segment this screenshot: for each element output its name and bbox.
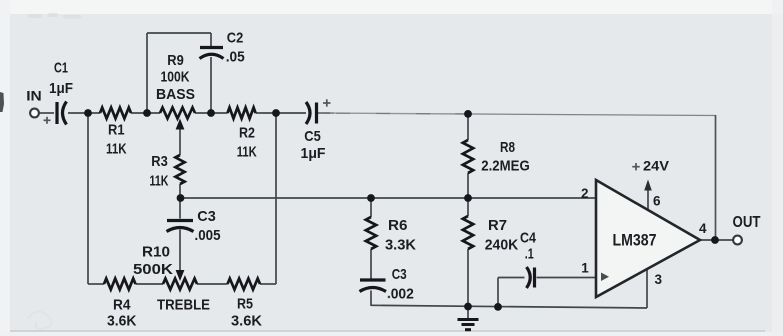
svg-text:LM387: LM387 [613, 232, 657, 250]
svg-text:C4: C4 [520, 229, 537, 246]
svg-text:2: 2 [581, 186, 589, 201]
svg-text:C1: C1 [54, 60, 68, 77]
svg-text:R6: R6 [388, 217, 408, 234]
svg-text:1μF: 1μF [301, 145, 326, 162]
svg-text:R2: R2 [239, 125, 255, 142]
svg-text:24V: 24V [643, 158, 670, 174]
svg-text:C3: C3 [197, 208, 216, 225]
svg-text:100K: 100K [161, 69, 190, 86]
svg-text:11K: 11K [150, 173, 169, 190]
svg-text:240K: 240K [485, 237, 519, 254]
svg-text:R4: R4 [113, 297, 131, 314]
svg-text:BASS: BASS [156, 86, 195, 103]
svg-text:002: 002 [391, 286, 414, 303]
svg-text:500K: 500K [133, 261, 173, 278]
svg-text:C5: C5 [304, 128, 321, 145]
svg-text:3: 3 [655, 272, 663, 287]
svg-text:6: 6 [653, 194, 661, 209]
svg-text:11K: 11K [106, 141, 127, 158]
svg-text:R5: R5 [237, 296, 253, 313]
svg-text:11K: 11K [237, 143, 257, 160]
svg-text:.05: .05 [226, 49, 245, 66]
svg-text:4: 4 [699, 221, 707, 236]
svg-text:3.6K: 3.6K [231, 313, 262, 330]
svg-text:TREBLE: TREBLE [157, 297, 210, 314]
svg-text:1μF: 1μF [49, 80, 73, 97]
svg-text:C2: C2 [227, 30, 244, 47]
svg-text:IN: IN [26, 88, 42, 104]
svg-text:3.3K: 3.3K [385, 237, 416, 254]
svg-text:.1: .1 [525, 245, 534, 262]
svg-text:R8: R8 [500, 139, 515, 156]
svg-text:R7: R7 [488, 217, 507, 234]
svg-text:R9: R9 [167, 52, 184, 69]
svg-text:2.2MEG: 2.2MEG [481, 158, 530, 175]
svg-text:1: 1 [581, 260, 589, 275]
svg-text:R1: R1 [108, 122, 125, 139]
svg-text:R3: R3 [151, 153, 168, 170]
svg-text:C3: C3 [392, 266, 407, 283]
svg-text:3.6K: 3.6K [107, 313, 137, 330]
svg-text:.005: .005 [195, 227, 221, 244]
svg-text:R10: R10 [142, 244, 170, 261]
svg-text:OUT: OUT [733, 214, 761, 231]
